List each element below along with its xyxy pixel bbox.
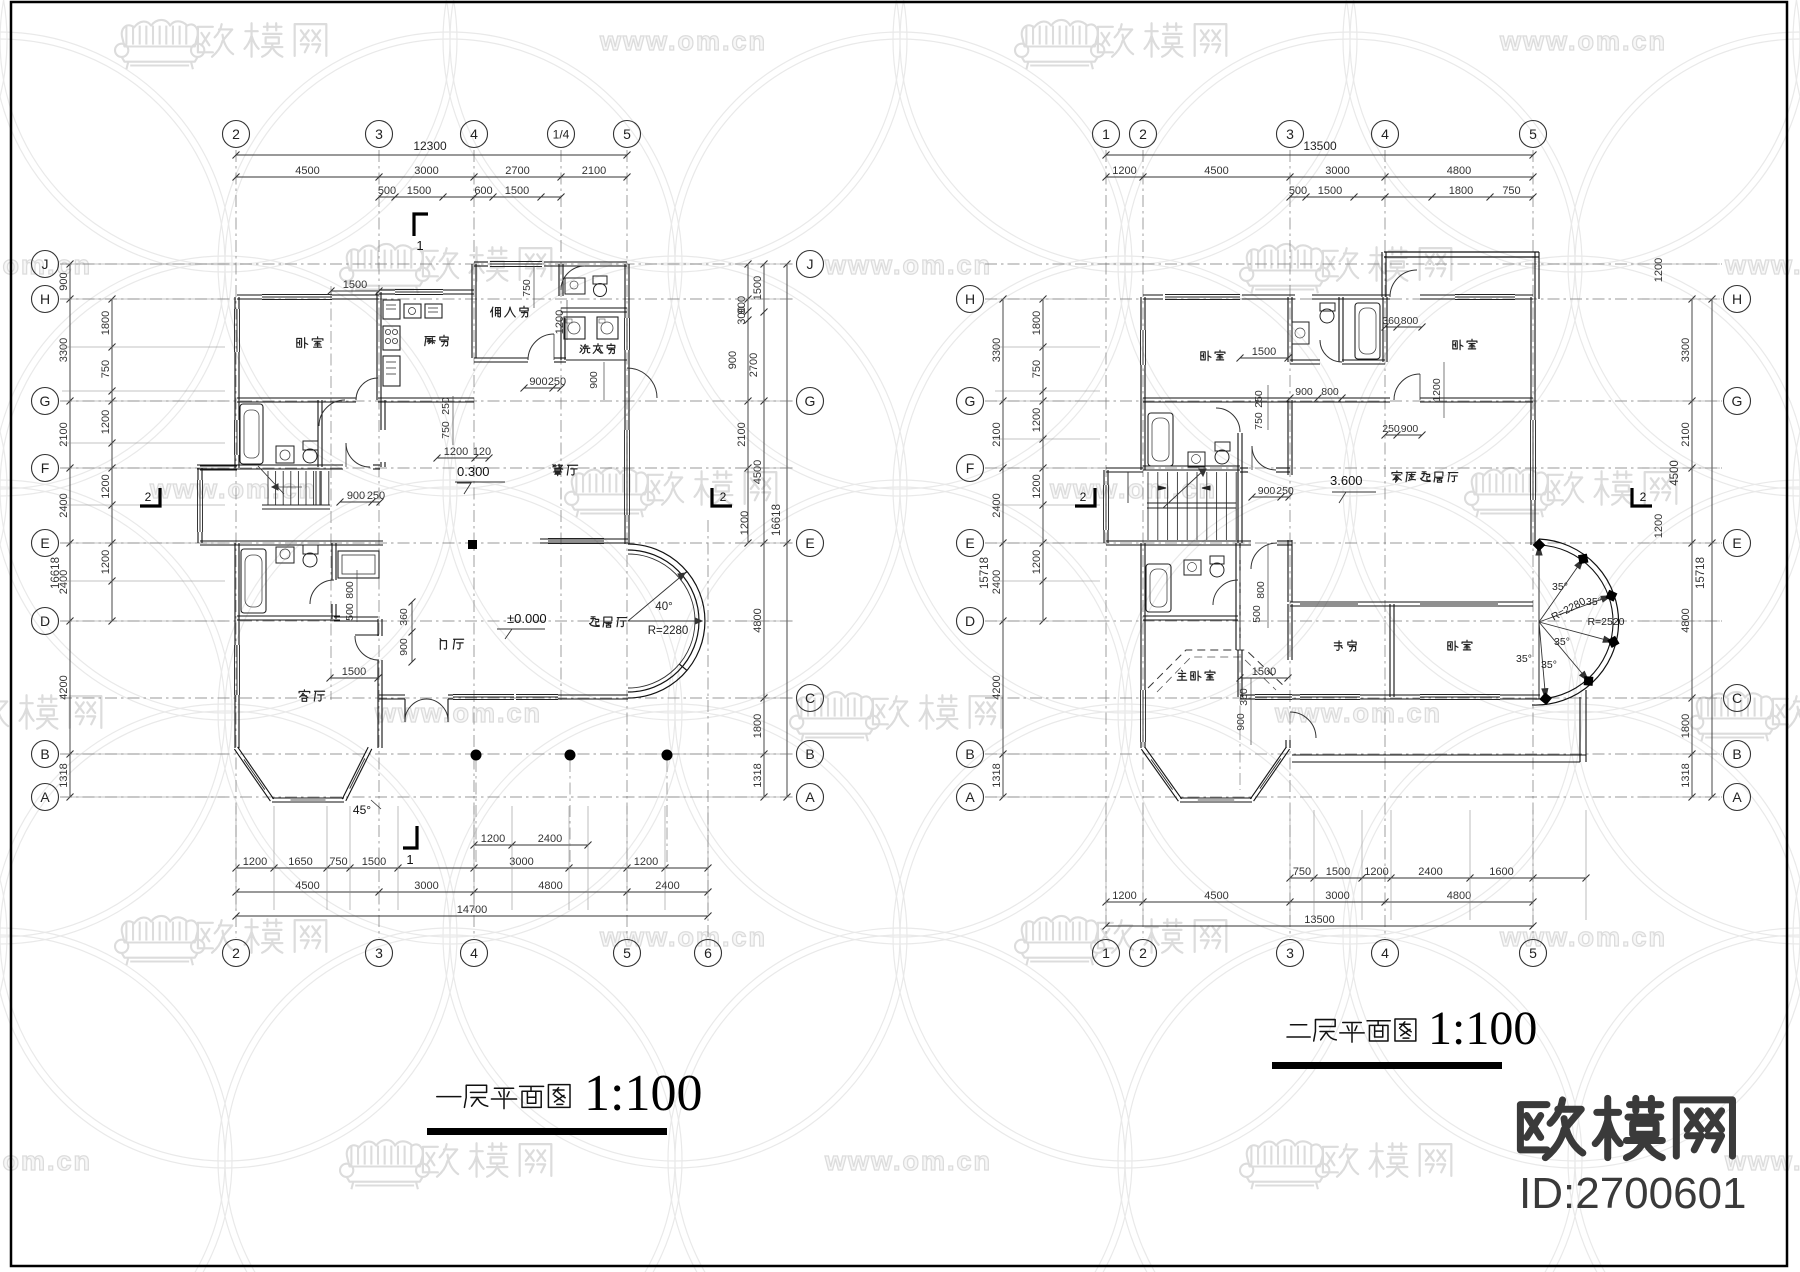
svg-text:250: 250 (1276, 485, 1294, 497)
svg-text:A: A (805, 789, 815, 805)
svg-text:1500: 1500 (505, 185, 529, 197)
svg-text:B: B (40, 746, 49, 762)
svg-text:900: 900 (1235, 713, 1247, 731)
svg-text:1:100: 1:100 (1428, 1002, 1537, 1055)
svg-text:www.om.cn: www.om.cn (824, 1146, 992, 1176)
svg-text:F: F (41, 460, 50, 476)
svg-text:14700: 14700 (457, 904, 488, 916)
svg-text:1200: 1200 (1653, 514, 1665, 538)
svg-text:1800: 1800 (752, 714, 764, 738)
svg-text:4800: 4800 (1447, 890, 1471, 902)
svg-text:35°: 35° (1554, 636, 1570, 648)
svg-text:800: 800 (1401, 315, 1419, 327)
svg-text:40°: 40° (655, 601, 672, 613)
svg-text:1200: 1200 (1364, 866, 1388, 878)
svg-text:250: 250 (367, 490, 385, 502)
svg-text:360: 360 (1238, 688, 1250, 706)
svg-text:www.om.cn: www.om.cn (1724, 250, 1800, 280)
svg-text:1200: 1200 (1112, 890, 1136, 902)
svg-text:800: 800 (1321, 386, 1339, 398)
svg-text:1800: 1800 (100, 311, 112, 335)
svg-text:R=2520: R=2520 (1587, 616, 1624, 628)
svg-text:5: 5 (1529, 945, 1537, 961)
svg-text:900: 900 (1295, 386, 1313, 398)
svg-text:4200: 4200 (58, 675, 70, 699)
svg-text:2: 2 (145, 490, 152, 504)
svg-text:500: 500 (1251, 605, 1263, 623)
svg-text:E: E (805, 535, 814, 551)
svg-text:1500: 1500 (752, 276, 764, 300)
svg-text:A: A (40, 789, 50, 805)
svg-text:2100: 2100 (736, 422, 748, 446)
svg-text:E: E (1732, 535, 1741, 551)
svg-text:900: 900 (1401, 423, 1419, 435)
svg-text:A: A (1732, 789, 1742, 805)
svg-text:3300: 3300 (991, 338, 1003, 362)
svg-text:4500: 4500 (752, 460, 764, 484)
svg-text:3: 3 (1286, 945, 1294, 961)
svg-text:1200: 1200 (444, 446, 468, 458)
svg-text:1500: 1500 (1252, 666, 1276, 678)
svg-text:1: 1 (416, 238, 423, 253)
svg-text:1318: 1318 (991, 763, 1003, 787)
svg-text:750: 750 (1031, 360, 1043, 378)
svg-text:D: D (40, 613, 50, 629)
svg-text:www.om.cn: www.om.cn (0, 1146, 92, 1176)
svg-text:35°: 35° (1541, 659, 1557, 671)
svg-text:1: 1 (1102, 945, 1110, 961)
svg-text:1/4: 1/4 (553, 127, 570, 141)
svg-text:1650: 1650 (288, 856, 312, 868)
svg-text:750: 750 (1293, 866, 1311, 878)
svg-text:3000: 3000 (509, 856, 533, 868)
svg-text:2400: 2400 (991, 493, 1003, 517)
svg-text:C: C (1732, 690, 1742, 706)
svg-text:2700: 2700 (505, 165, 529, 177)
svg-text:4800: 4800 (752, 608, 764, 632)
svg-text:3000: 3000 (414, 880, 438, 892)
svg-text:900: 900 (588, 371, 600, 389)
svg-text:1:100: 1:100 (584, 1065, 702, 1122)
svg-text:3: 3 (375, 945, 383, 961)
svg-text:4500: 4500 (295, 165, 319, 177)
svg-text:900: 900 (58, 272, 70, 290)
svg-text:www.om.cn: www.om.cn (1049, 474, 1217, 504)
svg-text:750: 750 (440, 421, 452, 439)
svg-text:H: H (1732, 291, 1742, 307)
svg-text:1500: 1500 (343, 279, 367, 291)
svg-text:3: 3 (1286, 126, 1294, 142)
svg-text:3: 3 (375, 126, 383, 142)
svg-text:2100: 2100 (1680, 422, 1692, 446)
svg-text:250: 250 (548, 376, 566, 388)
svg-text:3.600: 3.600 (1330, 473, 1363, 488)
svg-text:2400: 2400 (655, 880, 679, 892)
svg-text:500: 500 (344, 603, 356, 621)
svg-text:1200: 1200 (634, 856, 658, 868)
svg-text:750: 750 (100, 360, 112, 378)
svg-text:www.om.cn: www.om.cn (599, 26, 767, 56)
svg-text:250: 250 (440, 397, 452, 415)
svg-text:1318: 1318 (58, 763, 70, 787)
svg-text:750: 750 (329, 856, 347, 868)
svg-text:5: 5 (623, 945, 631, 961)
svg-text:2: 2 (1640, 490, 1647, 504)
svg-text:2: 2 (1139, 945, 1147, 961)
svg-text:800: 800 (344, 581, 356, 599)
svg-text:0.300: 0.300 (457, 464, 490, 479)
svg-text:G: G (40, 393, 51, 409)
svg-text:B: B (805, 746, 814, 762)
svg-text:1500: 1500 (1318, 185, 1342, 197)
svg-text:1: 1 (1102, 126, 1110, 142)
svg-text:4: 4 (1381, 945, 1389, 961)
svg-text:15718: 15718 (979, 557, 991, 589)
svg-text:2: 2 (1139, 126, 1147, 142)
svg-text:2400: 2400 (991, 570, 1003, 594)
svg-text:1200: 1200 (1112, 165, 1136, 177)
svg-text:C: C (805, 690, 815, 706)
svg-text:300: 300 (736, 306, 748, 324)
svg-text:750: 750 (521, 279, 533, 297)
svg-text:4200: 4200 (991, 675, 1003, 699)
svg-text:2400: 2400 (538, 833, 562, 845)
svg-text:www.om.cn: www.om.cn (1499, 922, 1667, 952)
svg-text:1800: 1800 (1680, 714, 1692, 738)
svg-text:6: 6 (704, 945, 712, 961)
svg-text:45°: 45° (353, 803, 371, 817)
svg-text:1200: 1200 (739, 511, 751, 535)
svg-text:2: 2 (232, 945, 240, 961)
svg-text:2: 2 (232, 126, 240, 142)
svg-text:±0.000: ±0.000 (507, 611, 547, 626)
svg-text:2400: 2400 (58, 493, 70, 517)
svg-text:1800: 1800 (1449, 185, 1473, 197)
svg-text:3300: 3300 (58, 338, 70, 362)
svg-text:A: A (965, 789, 975, 805)
svg-text:1200: 1200 (1031, 408, 1043, 432)
svg-text:16618: 16618 (771, 504, 783, 536)
svg-text:4800: 4800 (538, 880, 562, 892)
svg-text:13500: 13500 (1303, 139, 1337, 153)
svg-text:1200: 1200 (554, 310, 566, 334)
svg-text:2400: 2400 (1418, 866, 1442, 878)
svg-text:4: 4 (470, 945, 478, 961)
svg-text:D: D (965, 613, 975, 629)
svg-text:750: 750 (1253, 412, 1265, 430)
svg-text:13500: 13500 (1304, 914, 1335, 926)
svg-text:120: 120 (473, 446, 491, 458)
svg-text:R=2280: R=2280 (648, 625, 689, 637)
svg-text:250: 250 (1253, 390, 1265, 408)
svg-text:1318: 1318 (1680, 763, 1692, 787)
svg-text:www.om.cn: www.om.cn (149, 474, 317, 504)
svg-text:www.om.cn: www.om.cn (1499, 26, 1667, 56)
svg-text:1500: 1500 (407, 185, 431, 197)
svg-text:4800: 4800 (1447, 165, 1471, 177)
svg-text:900: 900 (347, 490, 365, 502)
svg-text:600: 600 (474, 185, 492, 197)
svg-text:1200: 1200 (100, 474, 112, 498)
svg-text:H: H (40, 291, 50, 307)
svg-text:G: G (965, 393, 976, 409)
svg-text:B: B (965, 746, 974, 762)
svg-text:1200: 1200 (1031, 474, 1043, 498)
svg-text:900: 900 (398, 638, 410, 656)
svg-text:3000: 3000 (1325, 890, 1349, 902)
svg-text:1500: 1500 (342, 666, 366, 678)
svg-text:2700: 2700 (748, 353, 760, 377)
svg-text:1200: 1200 (1031, 550, 1043, 574)
svg-text:G: G (1732, 393, 1743, 409)
svg-text:B: B (1732, 746, 1741, 762)
svg-text:1600: 1600 (1489, 866, 1513, 878)
svg-text:G: G (805, 393, 816, 409)
svg-text:E: E (965, 535, 974, 551)
svg-text:1: 1 (406, 852, 413, 867)
svg-text:4500: 4500 (1204, 890, 1228, 902)
svg-text:1200: 1200 (243, 856, 267, 868)
svg-text:3000: 3000 (414, 165, 438, 177)
svg-text:2: 2 (720, 490, 727, 504)
svg-text:www.om.cn: www.om.cn (824, 250, 992, 280)
svg-text:360: 360 (398, 608, 410, 626)
svg-text:800: 800 (1255, 581, 1267, 599)
svg-text:J: J (807, 256, 814, 272)
svg-text:360: 360 (1382, 315, 1400, 327)
svg-text:5: 5 (1529, 126, 1537, 142)
svg-text:www.om.cn: www.om.cn (374, 698, 542, 728)
svg-text:12300: 12300 (413, 139, 447, 153)
svg-text:900: 900 (529, 376, 547, 388)
svg-text:2: 2 (1080, 490, 1087, 504)
svg-text:3000: 3000 (1325, 165, 1349, 177)
svg-text:500: 500 (378, 185, 396, 197)
svg-text:16618: 16618 (50, 557, 62, 589)
svg-text:J: J (42, 256, 49, 272)
svg-text:2100: 2100 (991, 422, 1003, 446)
svg-text:35°: 35° (1586, 596, 1602, 608)
svg-text:1318: 1318 (752, 763, 764, 787)
svg-text:1200: 1200 (481, 833, 505, 845)
svg-text:www.om.cn: www.om.cn (1274, 698, 1442, 728)
svg-text:ID:2700601: ID:2700601 (1519, 1169, 1747, 1218)
svg-text:15718: 15718 (1695, 557, 1707, 589)
svg-text:F: F (966, 460, 975, 476)
svg-text:35°: 35° (1552, 581, 1568, 593)
svg-text:4: 4 (1381, 126, 1389, 142)
svg-text:750: 750 (1502, 185, 1520, 197)
svg-text:5: 5 (623, 126, 631, 142)
svg-text:4500: 4500 (1669, 460, 1681, 486)
svg-text:4500: 4500 (1204, 165, 1228, 177)
svg-text:900: 900 (1258, 485, 1276, 497)
svg-text:1800: 1800 (1031, 311, 1043, 335)
svg-text:1200: 1200 (100, 550, 112, 574)
svg-text:1200: 1200 (1431, 378, 1443, 402)
svg-text:500: 500 (1289, 185, 1307, 197)
svg-text:250: 250 (1382, 423, 1400, 435)
svg-text:1500: 1500 (362, 856, 386, 868)
svg-text:1500: 1500 (1326, 866, 1350, 878)
svg-text:E: E (40, 535, 49, 551)
svg-text:4: 4 (470, 126, 478, 142)
svg-text:1200: 1200 (100, 410, 112, 434)
svg-text:3300: 3300 (1680, 338, 1692, 362)
svg-text:2100: 2100 (582, 165, 606, 177)
svg-text:1500: 1500 (1252, 346, 1276, 358)
svg-text:900: 900 (727, 351, 739, 369)
svg-text:4500: 4500 (295, 880, 319, 892)
svg-text:1200: 1200 (1653, 258, 1665, 282)
svg-text:4800: 4800 (1680, 608, 1692, 632)
svg-text:35°: 35° (1516, 653, 1532, 665)
svg-text:H: H (965, 291, 975, 307)
